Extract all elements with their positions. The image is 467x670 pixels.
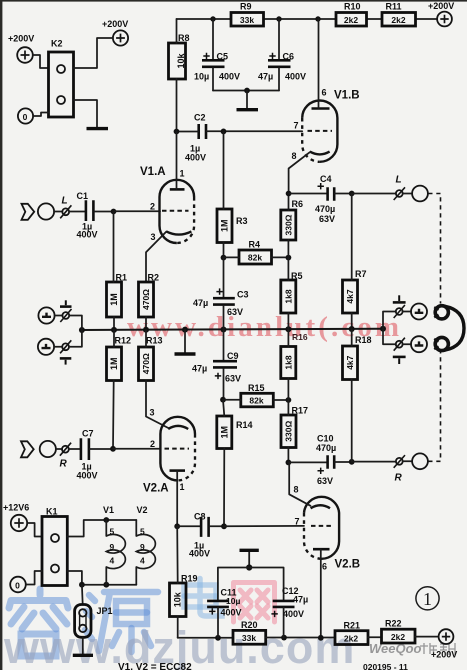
svg-text:+200V: +200V: [102, 19, 128, 29]
resistor R20: [233, 620, 266, 644]
wire C2 to V1.B grid: [207, 130, 303, 132]
svg-text:1: 1: [180, 169, 185, 179]
node R3 R4 C3: [221, 255, 227, 261]
dashed R to headphone: [428, 352, 440, 461]
svg-text:1M: 1M: [109, 293, 119, 306]
svg-text:JP1: JP1: [97, 606, 113, 616]
capacitor C6: [258, 19, 306, 91]
svg-text:1k8: 1k8: [283, 289, 293, 303]
wire C2 left: [177, 131, 199, 133]
connector K1: [42, 507, 67, 586]
svg-text:R11: R11: [386, 2, 402, 12]
svg-text:470µ: 470µ: [315, 204, 335, 214]
input jack circle R: [40, 441, 56, 457]
wire to ground: [246, 91, 248, 109]
svg-text:63V: 63V: [227, 307, 243, 317]
resistor R19: [170, 574, 198, 617]
node C5C6 ground: [244, 88, 250, 94]
wire R4 left: [224, 256, 240, 258]
phone jack circle lower: [411, 336, 427, 352]
svg-text:9: 9: [110, 542, 115, 552]
resistor R22: [382, 619, 416, 643]
svg-text:R8: R8: [178, 33, 190, 43]
wire grid node to R1: [113, 212, 115, 283]
wire R21 to R22: [368, 636, 382, 638]
svg-text:63V: 63V: [319, 214, 335, 224]
svg-text:10k: 10k: [173, 591, 183, 607]
wire grid node to V1.A: [114, 210, 161, 212]
node R17 C10: [286, 460, 292, 466]
node C2 R3: [221, 129, 227, 135]
svg-text:33k: 33k: [240, 15, 254, 25]
svg-text:8: 8: [294, 485, 299, 495]
node V2.A anode C8 R19: [174, 523, 180, 529]
resistor R6: [281, 199, 303, 240]
wire C5 C6 bottoms: [213, 90, 279, 92]
node heater bottom JP1: [79, 582, 85, 588]
resistor R8: [169, 33, 190, 79]
terminal 0 upper: [18, 108, 33, 123]
svg-text:+12V6: +12V6: [3, 503, 29, 513]
wire +200V to K2: [33, 55, 49, 68]
wire K1 to heater bottom: [67, 571, 136, 585]
wire node to JP1: [81, 585, 84, 605]
wire plug to phone jack upper: [403, 311, 411, 313]
capacitor C5: [194, 19, 240, 91]
resistor R7: [343, 269, 367, 313]
svg-text:C5: C5: [217, 52, 229, 62]
bottom rail left: [178, 637, 233, 639]
wire C4 node to R7: [351, 194, 353, 281]
svg-text:63V: 63V: [317, 476, 333, 486]
wire C1 to grid node: [94, 211, 113, 213]
node C5 top: [210, 16, 215, 21]
svg-text:R22: R22: [385, 619, 402, 629]
svg-text:K1: K1: [46, 507, 58, 517]
svg-text:10µ: 10µ: [226, 596, 240, 606]
resistor R3: [217, 209, 248, 243]
svg-text:400V: 400V: [185, 153, 206, 163]
resistor R13: [139, 336, 163, 381]
svg-text:470Ω: 470Ω: [141, 289, 151, 310]
svg-text:330Ω: 330Ω: [284, 421, 294, 442]
svg-text:2k2: 2k2: [391, 15, 405, 25]
wire to L plug: [352, 193, 396, 195]
heater winding V1: [103, 505, 125, 585]
capacitor C3: [193, 258, 249, 330]
resistor R14: [217, 416, 253, 449]
svg-text:R2: R2: [148, 273, 160, 283]
wire top bus C11 C12: [218, 568, 284, 601]
node C10 R18: [349, 459, 355, 465]
ground rail: [175, 330, 196, 354]
svg-text:2: 2: [150, 439, 155, 449]
input source arrow L: [22, 204, 35, 220]
wire grid node to V2.A: [113, 448, 161, 450]
svg-text:1: 1: [423, 589, 432, 609]
node C8 R14: [221, 523, 227, 529]
svg-text:1k8: 1k8: [283, 355, 293, 369]
connector K2: [49, 39, 74, 118]
wire K2 to ground: [74, 100, 98, 127]
wire rail to R8: [176, 19, 178, 43]
input source arrow R: [21, 441, 34, 457]
svg-text:33k: 33k: [242, 633, 256, 643]
wire jack to plug: [54, 211, 62, 213]
plug R out: [394, 455, 405, 483]
node heater top V1: [103, 517, 109, 523]
scan border left: [0, 0, 2, 670]
svg-text:400V: 400V: [189, 549, 210, 559]
wire 0 to K1: [26, 571, 42, 585]
input jack circle L: [38, 203, 54, 219]
wire lower-left jack to rail: [69, 330, 82, 347]
resistor R16: [281, 332, 308, 379]
svg-text:K2: K2: [51, 39, 63, 49]
svg-text:R17: R17: [292, 406, 309, 416]
wire V1.B cathode node to R6: [288, 194, 290, 211]
wire R14 to C8 node: [223, 449, 225, 527]
terminal 0 lower: [10, 577, 26, 593]
svg-text:0: 0: [23, 112, 28, 122]
svg-text:400V: 400V: [77, 471, 98, 481]
svg-text:R18: R18: [355, 335, 372, 345]
capacitor C7: [77, 429, 98, 481]
wire plug to phone jack lower: [403, 343, 411, 345]
node rail C3: [221, 327, 227, 333]
svg-text:8: 8: [292, 151, 297, 161]
svg-text:5: 5: [140, 527, 145, 537]
svg-text:2k2: 2k2: [344, 15, 358, 25]
node C11 bottom: [215, 635, 221, 641]
svg-text:V1: V1: [103, 505, 114, 515]
ground upper-left jack: [60, 305, 72, 308]
wire to R plug: [352, 461, 396, 463]
capacitor C8: [189, 512, 210, 559]
svg-text:V2: V2: [137, 505, 148, 515]
svg-text:5: 5: [110, 527, 115, 537]
svg-text:2k2: 2k2: [391, 632, 405, 642]
node R8 C2 anode V1.A: [174, 129, 180, 135]
svg-text:400V: 400V: [221, 608, 242, 618]
svg-text:82k: 82k: [248, 253, 262, 263]
svg-text:R20: R20: [241, 620, 258, 630]
capacitor C2: [185, 113, 206, 163]
capacitor C1: [77, 191, 98, 240]
wire C2 node to R3: [223, 131, 225, 209]
resistor R12: [107, 336, 132, 381]
wire anode node to R19: [176, 526, 179, 583]
node V1.B anode: [315, 16, 320, 21]
svg-text:R19: R19: [181, 574, 198, 584]
svg-text:63V: 63V: [225, 374, 241, 384]
resistor R15: [241, 383, 273, 407]
svg-text:R10: R10: [344, 2, 361, 12]
capacitor C4: [315, 174, 335, 224]
node grid V1.A: [111, 209, 117, 215]
svg-text:R21: R21: [344, 620, 361, 630]
svg-text:47µ: 47µ: [193, 298, 208, 308]
resistor R4: [239, 240, 272, 265]
capacitor C10: [316, 434, 336, 487]
svg-text:6: 6: [322, 562, 327, 572]
wire R22 to terminal: [415, 636, 439, 638]
capacitor C9: [192, 330, 241, 400]
terminal +12V6: [3, 503, 29, 532]
wire node to V2.B grid: [224, 525, 304, 527]
phone plug lower: [394, 338, 405, 351]
wire K1 to heater top: [67, 520, 136, 537]
svg-text:R16: R16: [292, 332, 308, 342]
wire jack to plug R: [56, 448, 62, 450]
node C6 top: [276, 16, 281, 21]
svg-text:1: 1: [180, 482, 185, 492]
svg-text:4k7: 4k7: [345, 355, 355, 369]
heater winding V2: [136, 505, 155, 585]
wire R8 to C2 node: [176, 79, 178, 132]
ground K2: [87, 127, 109, 130]
svg-text:+200V: +200V: [428, 1, 454, 11]
wire R12 down: [112, 381, 115, 449]
svg-text:10µ: 10µ: [194, 72, 209, 82]
wire plug to C7: [69, 448, 80, 450]
svg-text:R7: R7: [355, 269, 367, 279]
node rail R2: [143, 327, 149, 333]
svg-text:020195 - 11: 020195 - 11: [363, 662, 408, 670]
wire C8 to grid node V2.B: [209, 525, 224, 527]
ground C5C6: [237, 108, 259, 111]
node rail R1: [111, 327, 117, 333]
wire R6 to node: [287, 240, 289, 258]
capacitor C12: [271, 586, 308, 638]
wire 0 to K2: [33, 113, 48, 117]
wire C9 node to R14: [223, 400, 224, 416]
watermark blue char yuan: [85, 592, 158, 652]
node C12 bottom: [281, 635, 287, 641]
node R15 R16 R17: [286, 397, 292, 403]
ground phone upper: [393, 301, 406, 304]
wire R13 to V2.A cathode: [146, 381, 168, 429]
wire R18 to C10 node: [351, 380, 353, 462]
wire cathode node to C4: [289, 193, 327, 195]
node rail left: [79, 327, 85, 333]
headphone symbol: [434, 306, 464, 351]
resistor R10: [336, 2, 367, 27]
terminal +200V top-right: [428, 1, 454, 26]
wire plug to L terminal: [403, 193, 412, 195]
svg-text:R3: R3: [236, 216, 248, 226]
wire R3 to R4 node: [223, 243, 225, 258]
capacitor C11: [207, 588, 241, 638]
svg-text:V1.B: V1.B: [334, 90, 360, 102]
wire node to R17: [287, 400, 289, 415]
wire C4 to L node: [335, 193, 352, 195]
svg-text:2: 2: [150, 202, 155, 212]
node rail out: [380, 326, 386, 332]
svg-text:400V: 400V: [285, 72, 306, 82]
svg-text:L: L: [62, 196, 68, 207]
top rail wire: [177, 18, 232, 20]
node V2.B anode rail: [318, 635, 324, 641]
wire K2 to +200V mid: [74, 38, 113, 68]
monitor jack upper-left: [38, 307, 71, 323]
wire R16 to node: [287, 379, 289, 401]
wire JP1 to ground: [82, 637, 84, 653]
svg-text:4k7: 4k7: [345, 289, 355, 303]
svg-text:470µ: 470µ: [316, 443, 336, 453]
svg-text:C3: C3: [237, 290, 249, 300]
node rail R5: [285, 326, 291, 332]
plug R in: [60, 443, 72, 470]
triode V1.A: [140, 132, 194, 283]
svg-text:7: 7: [295, 517, 300, 527]
wire rail to R16: [287, 329, 289, 346]
monitor jack lower-left: [38, 339, 71, 355]
wire node to R5: [287, 258, 289, 280]
resistor R9: [231, 2, 264, 27]
triode V2.B: [289, 462, 360, 638]
node C9 R15 R14: [220, 397, 226, 403]
wire rail node to phone jacks: [383, 312, 396, 345]
node R4 R5 R6: [286, 255, 292, 261]
node rail ground: [182, 327, 188, 333]
wire upper-left jack to rail: [69, 316, 82, 331]
triode V2.A: [143, 408, 195, 527]
svg-text:1M: 1M: [109, 357, 119, 370]
svg-text:R12: R12: [115, 336, 132, 346]
resistor R17: [281, 406, 308, 448]
svg-text:1M: 1M: [219, 426, 229, 439]
node cathode C4: [286, 191, 292, 197]
watermark cyan char dian: [184, 579, 222, 617]
svg-text:2k2: 2k2: [344, 633, 358, 643]
wire R15 right: [273, 399, 288, 401]
terminal +200V top-left: [8, 34, 34, 63]
svg-text:3: 3: [151, 232, 156, 242]
wire R4 right: [272, 256, 289, 258]
node C4 R7: [349, 191, 355, 197]
svg-text:V1.A: V1.A: [140, 166, 166, 178]
svg-text:R: R: [395, 473, 403, 484]
svg-text:R15: R15: [248, 383, 265, 393]
svg-text:0: 0: [15, 580, 20, 590]
svg-text:C2: C2: [194, 113, 206, 123]
triode V1.B: [289, 19, 360, 194]
wire R7 to rail: [351, 313, 353, 329]
figure number circled 1: [416, 587, 439, 610]
svg-text:47µ: 47µ: [258, 72, 273, 82]
svg-text:4: 4: [140, 556, 145, 566]
wire rail to R13: [145, 330, 147, 347]
wire C7 to grid node: [90, 448, 113, 450]
terminal L out: [412, 186, 428, 202]
ground JP1: [73, 654, 93, 657]
watermark pink char wang: [234, 583, 275, 623]
svg-text:C6: C6: [283, 52, 295, 62]
svg-text:4: 4: [110, 556, 115, 566]
svg-text:C9: C9: [227, 351, 239, 361]
wire R9 to R10: [264, 18, 337, 20]
ground lower-left jack: [60, 357, 72, 360]
wire R1 to rail: [113, 317, 115, 330]
wire plug to C1: [69, 211, 85, 213]
svg-text:V1, V2 = ECC82: V1, V2 = ECC82: [118, 662, 192, 670]
terminal +200V mid: [102, 19, 128, 46]
resistor R5: [281, 271, 303, 313]
svg-text:R4: R4: [249, 240, 261, 250]
resistor R11: [382, 2, 416, 27]
svg-text:R6: R6: [292, 199, 304, 209]
wire R2 to rail: [145, 317, 147, 330]
wire R5 to rail: [287, 313, 289, 329]
svg-text:+200V: +200V: [8, 34, 34, 44]
wire +12V6 to K1: [27, 523, 42, 537]
resistor R2: [139, 273, 160, 318]
ground phone lower: [393, 356, 406, 359]
main rail: [82, 329, 383, 330]
wire R19 to bottom rail: [177, 617, 179, 638]
ground C11 C12: [240, 550, 259, 567]
svg-text:400V: 400V: [283, 609, 304, 619]
resistor R21: [335, 620, 368, 644]
svg-text:R: R: [60, 459, 68, 470]
svg-text:C4: C4: [320, 174, 332, 184]
jumper JP1: [75, 605, 113, 638]
scan border top: [0, 0, 467, 2]
wire node to C10: [288, 461, 327, 463]
svg-text:C8: C8: [194, 512, 206, 522]
svg-text:470Ω: 470Ω: [141, 353, 151, 374]
svg-text:R14: R14: [236, 420, 253, 430]
svg-text:400V: 400V: [219, 72, 240, 82]
svg-text:R1: R1: [116, 273, 128, 283]
svg-text:1M: 1M: [220, 219, 230, 232]
svg-text:V2.A: V2.A: [143, 483, 169, 495]
watermark blue char rong: [9, 589, 68, 656]
svg-text:V2.B: V2.B: [335, 559, 361, 571]
wire R17 to C10 node: [287, 448, 289, 463]
svg-text:47µ: 47µ: [293, 595, 308, 605]
bottom rail mid: [266, 637, 335, 639]
wire rail to R12: [113, 330, 115, 347]
svg-text:9: 9: [140, 542, 145, 552]
svg-text:82k: 82k: [249, 396, 263, 406]
svg-text:C1: C1: [77, 191, 89, 201]
plug L out: [394, 175, 405, 201]
wire C10 to R node: [335, 461, 352, 463]
svg-text:3: 3: [150, 408, 155, 418]
node C11 C12 top: [246, 564, 252, 570]
terminal R out: [412, 453, 428, 469]
svg-text:+200V: +200V: [431, 650, 457, 660]
svg-text:R9: R9: [240, 2, 252, 12]
svg-text:R13: R13: [146, 336, 163, 346]
svg-text:R5: R5: [291, 271, 303, 281]
node grid V2.A: [110, 446, 116, 452]
wire anode node to C8: [177, 525, 200, 527]
wire R15 left: [223, 399, 241, 401]
svg-text:330Ω: 330Ω: [283, 214, 293, 235]
svg-text:L: L: [396, 175, 402, 186]
phone plug upper: [394, 305, 405, 318]
svg-text:6: 6: [322, 88, 327, 98]
resistor R18: [343, 335, 372, 380]
phone jack circle upper: [411, 304, 427, 320]
node heater bottom V1: [103, 582, 109, 588]
svg-text:7: 7: [294, 121, 299, 131]
svg-text:C10: C10: [317, 434, 334, 444]
wire plug to R terminal: [403, 460, 412, 462]
